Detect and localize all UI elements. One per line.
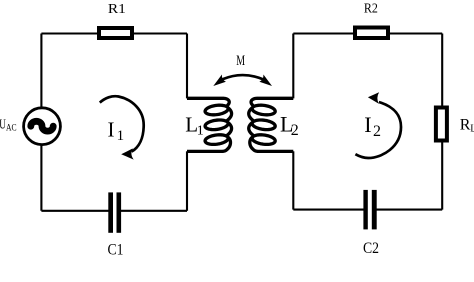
svg-text:R: R [460, 117, 471, 134]
svg-text:R1: R1 [108, 2, 126, 17]
svg-text:M: M [236, 53, 245, 69]
wire: right loop bottom (through C2) [293, 209, 442, 211]
svg-text:C2: C2 [363, 240, 379, 257]
current arrow I2 (counter-clockwise arc) [355, 102, 401, 158]
svg-text:2: 2 [373, 123, 381, 140]
wire: right loop left upper (down to L2 top) [292, 34, 294, 99]
svg-text:L: L [470, 124, 474, 135]
wire: left loop bottom (through C1) [41, 210, 187, 212]
svg-text:C1: C1 [108, 241, 124, 258]
wire: left loop right upper (node A down to L1 top) [186, 34, 188, 99]
resistor R2 (box on right loop top wire) [355, 28, 388, 39]
current arrow I1 (clockwise arc) [100, 96, 144, 151]
wire: right loop top (through R2) [293, 32, 442, 34]
svg-text:1: 1 [117, 128, 125, 144]
wire: right loop right side (through RL) [441, 34, 443, 210]
resistor RL (load, right side) [436, 108, 447, 141]
arrowhead of I1 [121, 148, 134, 159]
resistor R1 (box on left loop top wire) [99, 28, 132, 38]
svg-text:I: I [364, 112, 371, 137]
wire: right loop left lower (L2 bottom down) [292, 151, 294, 209]
arrowhead of I2 [368, 92, 379, 104]
svg-text:AC: AC [6, 123, 17, 133]
arrowhead of M arc left [213, 75, 226, 87]
AC source U_AC (circle with sine) [24, 108, 61, 145]
wire: left loop top (source + to R1 to node A) [41, 32, 187, 34]
wire: left loop right lower (L1 bottom to bottom wire) [186, 151, 188, 211]
capacitor C2 (two plates on right loop bottom wire) [363, 190, 376, 230]
mutual inductance M coupling arc [223, 75, 263, 79]
svg-text:1: 1 [197, 124, 204, 139]
arrowhead of M arc right [259, 75, 272, 87]
inductor L2 (secondary coil, mirrored) [249, 98, 294, 151]
wire: left loop left side (through source U_AC) [40, 34, 42, 211]
svg-text:R2: R2 [364, 2, 378, 17]
capacitor C1 (two plates on left loop bottom wire) [108, 192, 121, 232]
svg-text:I: I [108, 117, 115, 141]
inductor L1 (primary coil) [187, 98, 232, 151]
svg-text:2: 2 [291, 122, 299, 139]
